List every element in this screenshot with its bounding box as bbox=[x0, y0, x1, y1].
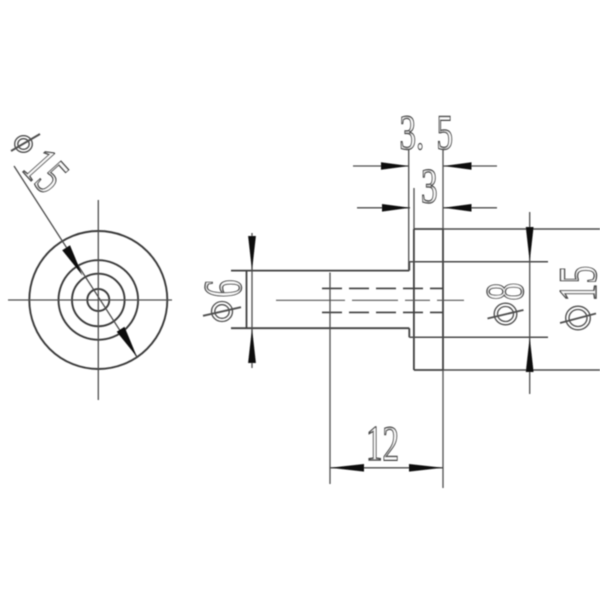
svg-text:6: 6 bbox=[193, 280, 253, 298]
svg-text:12: 12 bbox=[366, 416, 399, 471]
svg-text:3: 3 bbox=[421, 159, 438, 214]
svg-text:5: 5 bbox=[437, 105, 454, 160]
svg-text:3.: 3. bbox=[400, 105, 425, 160]
svg-text:15: 15 bbox=[548, 266, 600, 302]
svg-text:8: 8 bbox=[475, 283, 535, 301]
